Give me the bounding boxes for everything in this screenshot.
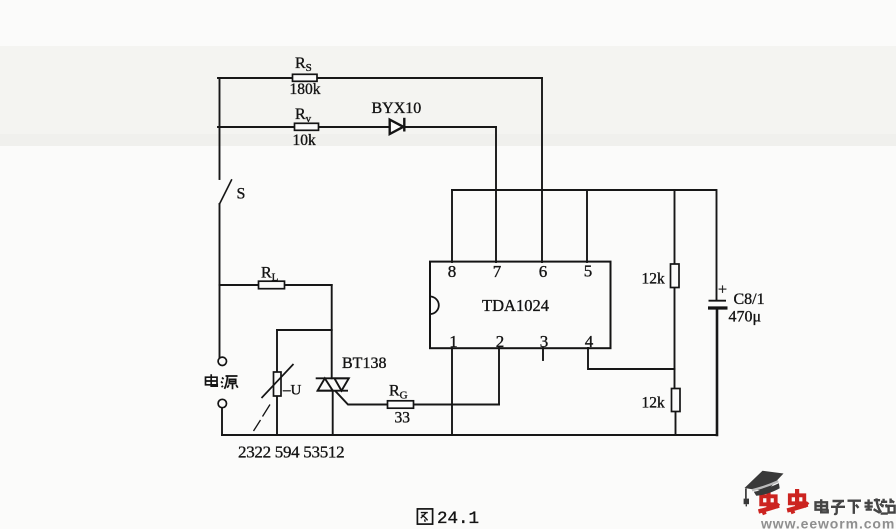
svg-text:12k: 12k (642, 271, 666, 288)
svg-text:BYX10: BYX10 (372, 100, 422, 117)
svg-text:TDA1024: TDA1024 (482, 296, 549, 315)
svg-text:+: + (718, 282, 727, 299)
svg-text:3: 3 (540, 332, 549, 351)
svg-text:2322 594 53512: 2322 594 53512 (238, 443, 344, 462)
svg-text:BT138: BT138 (342, 355, 386, 372)
svg-text:www.eeworm.com: www.eeworm.com (760, 516, 895, 529)
svg-text:2: 2 (496, 332, 505, 351)
svg-text:5: 5 (584, 262, 593, 281)
svg-text:4: 4 (585, 332, 594, 351)
svg-text:8: 8 (448, 262, 457, 281)
svg-text:12k: 12k (642, 395, 666, 412)
svg-text:–U: –U (282, 383, 302, 399)
svg-text:C8/1: C8/1 (734, 291, 765, 308)
svg-text:6: 6 (539, 262, 548, 281)
svg-text:1: 1 (449, 332, 458, 351)
svg-text:7: 7 (493, 262, 502, 281)
svg-text:33: 33 (395, 410, 411, 427)
svg-text:180k: 180k (290, 81, 321, 98)
svg-text:24.1: 24.1 (437, 509, 479, 529)
svg-text:470μ: 470μ (729, 309, 762, 326)
svg-text:S: S (237, 186, 246, 203)
svg-text:10k: 10k (293, 132, 317, 149)
